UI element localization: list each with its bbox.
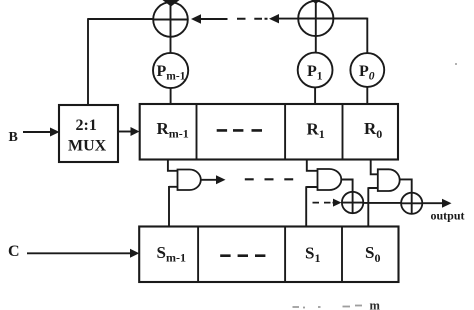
wire A2 output to X3 <box>341 180 352 192</box>
wire output <box>422 202 443 204</box>
coefficient circle P0 <box>350 53 384 87</box>
register R box <box>140 104 398 160</box>
coefficient circle Pm-1 <box>153 53 188 88</box>
wire feedback vertical to MUX <box>87 18 89 105</box>
wire A1 output <box>201 179 217 181</box>
wire MUX to R <box>119 131 132 133</box>
wire Pm-1 down to R <box>170 88 172 104</box>
arrowhead up at X1 top <box>161 0 182 7</box>
wire dashed segment between X1 and X2 <box>237 18 268 20</box>
arrowhead up at X2 top <box>310 0 323 4</box>
arrowhead dashed into X3 <box>333 199 342 207</box>
wire A3 bottom input down to S <box>368 187 378 227</box>
register R divider 3 <box>342 104 344 160</box>
wire X2 to P0 <box>333 18 367 54</box>
wire Rm-1 to AND A1 top input <box>168 160 178 171</box>
xor gate X2 (top right) <box>298 1 333 36</box>
svg-text:output: output <box>431 209 465 223</box>
arrowhead B into MUX <box>50 128 60 137</box>
xor gate X1 (top left) <box>153 2 188 38</box>
and gate A2 <box>318 169 342 190</box>
wire solid into X2 <box>278 18 299 20</box>
wire A3 output to X4 <box>400 179 412 192</box>
and gate A1 <box>178 170 201 191</box>
register R divider 2 <box>284 104 286 160</box>
wire X2 down to P1 <box>315 36 317 53</box>
wire B to MUX <box>23 131 51 133</box>
wire X3 to X4 <box>363 202 401 204</box>
wire A1 bottom input down to S <box>169 186 178 227</box>
arrowhead A1 output <box>216 175 226 184</box>
wire X1 down to Pm-1 <box>170 37 172 53</box>
svg-text:MUX: MUX <box>68 138 107 155</box>
wire P0 down to R <box>366 87 368 105</box>
register S divider 1 <box>197 227 199 283</box>
wire feedback horizontal left segment <box>88 18 154 20</box>
xor gate X3 <box>342 192 363 213</box>
svg-text:B: B <box>9 130 18 145</box>
xor gate X4 <box>401 193 422 214</box>
scan speck <box>455 63 457 65</box>
caption fragment clipped at bottom <box>293 306 363 308</box>
register S divider 3 <box>341 227 343 283</box>
svg-text:m: m <box>370 299 381 310</box>
arrowhead left into X1 <box>191 14 201 23</box>
arrowhead left mid feedback <box>269 14 279 23</box>
register R divider 1 <box>196 104 198 160</box>
arrowhead C into S <box>130 249 139 258</box>
wire A2 bottom input down to S <box>306 186 317 227</box>
svg-text:C: C <box>8 243 20 260</box>
register S divider 2 <box>284 227 286 283</box>
dashed ellipsis between gates <box>245 178 293 180</box>
mux U1 2:1 MUX box <box>59 105 118 162</box>
coefficient circle P1 <box>298 53 333 88</box>
and gate A3 <box>378 169 400 191</box>
register R ellipsis dashes <box>217 129 262 132</box>
wire solid segment right of X1 <box>200 18 228 20</box>
arrowhead output <box>442 199 452 208</box>
wire R1 to AND A2 top input <box>307 160 318 171</box>
svg-text:2:1: 2:1 <box>76 117 97 134</box>
wire R0 to AND A3 top input <box>371 160 378 175</box>
wire C to S <box>27 252 131 254</box>
dashed arrow into X3 <box>313 202 335 204</box>
register S box <box>139 227 398 283</box>
wire P1 down to R <box>314 87 316 104</box>
register S ellipsis dashes <box>220 254 265 257</box>
arrowhead MUX into R <box>131 127 140 136</box>
